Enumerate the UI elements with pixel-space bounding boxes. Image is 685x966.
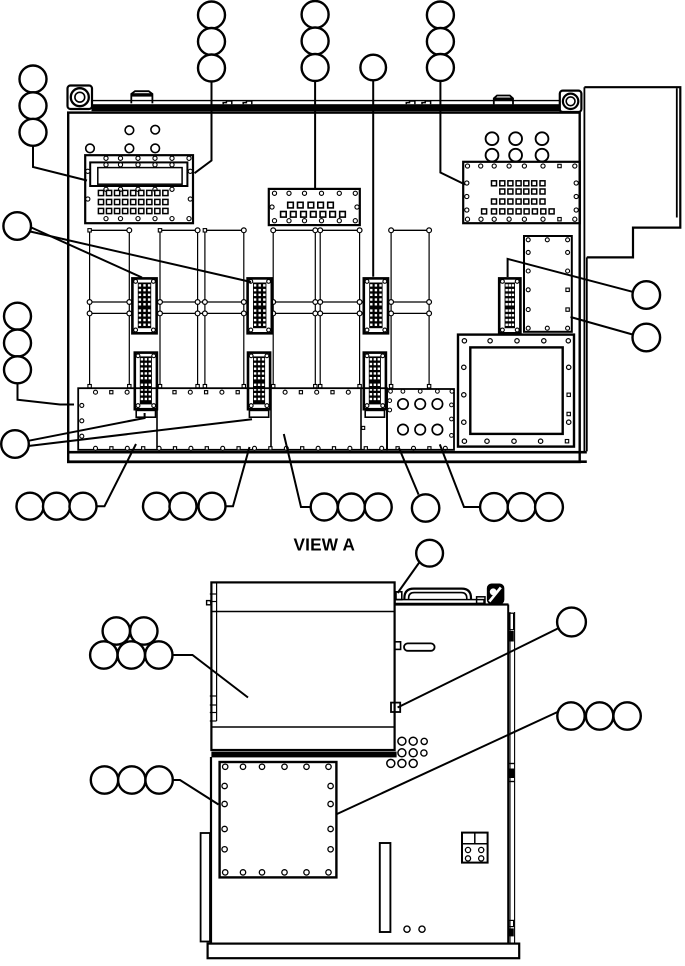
box inner left edge: [216, 582, 218, 721]
carrying handle outer: [404, 589, 471, 600]
balloon R2: [633, 324, 661, 352]
bottom plate divider 1: [156, 388, 158, 450]
balloon H: [557, 608, 586, 637]
guide rails vertical: [89, 230, 91, 387]
leader group K: [337, 712, 558, 814]
connector A2 upper col2: [248, 278, 272, 333]
balloon stack S1: [198, 2, 225, 29]
side access plate: [220, 762, 337, 877]
balloon stack L3: [4, 303, 31, 330]
box left tab: [207, 601, 211, 605]
plate right screws: [465, 164, 469, 168]
balloon stack S2: [302, 1, 329, 28]
vent plate with 6 holes: [387, 389, 454, 450]
right cabinet profile: [584, 87, 680, 257]
plate middle pin rows: [288, 202, 294, 208]
rail junction markers top: [88, 229, 91, 232]
small mounting bracket: [462, 833, 488, 863]
rail clips: [223, 101, 232, 104]
balloon group B: [143, 493, 170, 520]
rail bracket right: [494, 96, 513, 105]
box lower seam: [211, 726, 394, 728]
top rail thin line: [92, 100, 561, 102]
connector plate middle (J2): [269, 189, 360, 225]
latch bracket: [488, 584, 504, 604]
balloon group E: [480, 493, 508, 521]
leader stack S2: [314, 81, 316, 189]
bottom plate divider 3: [360, 388, 362, 450]
leaders balloon L4: [28, 413, 144, 441]
leader stack S4: [440, 81, 465, 185]
svg-text:VIEW A: VIEW A: [294, 535, 356, 555]
hinge piece bottom: [509, 920, 514, 926]
side view cabinet left edge: [210, 757, 212, 944]
vent holes upper-left: [125, 126, 134, 135]
balloon S3: [360, 55, 386, 81]
leader balloon D: [399, 448, 419, 495]
side view cabinet top edge: [395, 603, 509, 605]
plate middle screws: [272, 191, 276, 195]
balloon stack S4: [427, 2, 454, 29]
vent holes upper-right: [486, 132, 499, 145]
box bottom ledge: [211, 752, 396, 758]
side plate screws: [223, 764, 228, 769]
leader balloon H: [398, 629, 558, 708]
vertical slot bar: [380, 843, 391, 932]
rail bracket left: [131, 91, 152, 103]
connector A1 upper col1: [132, 278, 156, 333]
bottom rail of panel: [68, 451, 587, 454]
hinge strip lines: [509, 612, 511, 943]
leader balloon S3: [372, 80, 374, 277]
plate left screws: [104, 156, 108, 160]
connector A4 upper col4: [499, 278, 520, 333]
leader balloon T: [398, 562, 420, 593]
balloon L4: [1, 430, 29, 458]
electronics box: [211, 582, 394, 750]
rail junction markers mid: [87, 300, 92, 305]
balloon group A: [17, 493, 44, 520]
rail junction markers bottom: [88, 385, 91, 388]
right lifting lug: [560, 91, 582, 112]
bottom plate screws bottom row: [94, 446, 98, 450]
balloon group C: [311, 494, 338, 521]
hinge piece top: [509, 613, 514, 630]
balloon R1: [633, 281, 661, 309]
leader stack L1: [33, 146, 87, 181]
leader group C: [284, 434, 311, 507]
leader cluster F: [174, 655, 249, 698]
small holes bottom: [404, 926, 410, 932]
top rail thick bar: [92, 104, 561, 111]
left lifting lug: [68, 86, 93, 110]
leaders balloon L2: [30, 227, 142, 278]
hinge piece middle: [508, 763, 515, 765]
connector B2 lower col2: [248, 353, 270, 410]
leader balloon R2: [571, 317, 633, 335]
balloon T: [416, 540, 443, 567]
box right tab upper: [395, 642, 401, 650]
small side plate: [524, 236, 572, 332]
balloon stack L1: [20, 66, 47, 93]
plate left pin grid: [98, 190, 103, 195]
balloon D: [412, 494, 439, 521]
connector plate right (J3): [463, 162, 580, 223]
bottom plate screws left col: [80, 403, 84, 407]
side view bottom band: [208, 944, 520, 959]
carrying handle inner: [409, 593, 467, 600]
connector B1 lower col1: [135, 353, 157, 410]
box left edge ticks: [210, 593, 217, 595]
bottom access plate: [78, 388, 387, 450]
leader group B: [226, 447, 250, 506]
plate left slot frame: [90, 162, 187, 186]
handle slot capsule: [404, 643, 435, 650]
handle clamp left: [396, 592, 402, 600]
leader stack L3: [18, 384, 75, 405]
side view cabinet right edge: [507, 605, 509, 944]
box right tab lower: [391, 703, 400, 712]
leader balloon R1: [508, 259, 633, 292]
bottom plate screws top row: [94, 390, 98, 394]
main rear panel outline: [68, 113, 580, 462]
large plate screws: [462, 339, 466, 343]
connector plate left (J1): [85, 155, 193, 223]
balloon group K: [557, 702, 584, 729]
top rail segments y=230: [90, 229, 130, 231]
vent hole cluster: [398, 737, 406, 745]
balloon cluster F: [103, 617, 130, 644]
handle end small rect: [477, 597, 485, 604]
balloon group G: [91, 766, 118, 793]
balloon L2: [3, 212, 31, 240]
leader group E: [440, 444, 480, 507]
connector B3 lower col3: [364, 353, 386, 410]
connector A3 upper col3: [364, 278, 388, 333]
leader stack S1: [195, 82, 212, 174]
left thin rectangle: [201, 833, 210, 942]
large access plate with square opening: [458, 335, 574, 447]
box top seam: [211, 611, 394, 613]
leader group G: [173, 780, 219, 805]
bottom plate divider 2: [270, 388, 272, 450]
mid horizontal rails: [90, 301, 430, 303]
leader group A: [97, 444, 137, 506]
carrying handle base bar: [395, 600, 484, 604]
plate right pin grid: [492, 181, 497, 186]
